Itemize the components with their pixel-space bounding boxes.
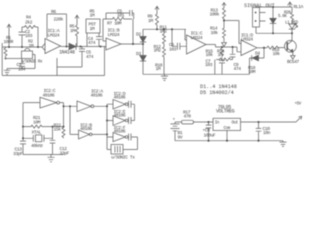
svg-text:103: 103 [25, 33, 33, 39]
svg-text:10k: 10k [211, 30, 219, 36]
svg-text:100uF: 100uF [204, 133, 216, 139]
svg-text:u/SONIC Rx: u/SONIC Rx [21, 60, 43, 65]
resistor R1 [4, 47, 7, 58]
svg-text:1M: 1M [218, 52, 223, 58]
svg-text:40106: 40106 [114, 95, 126, 101]
box PST [86, 19, 100, 33]
LED L1 [289, 23, 298, 41]
svg-text:SIGNAL OUT: SIGNAL OUT [244, 3, 275, 9]
svg-text:1M2: 1M2 [160, 28, 168, 34]
arrow +5V [299, 116, 302, 119]
svg-text:104: 104 [18, 67, 26, 73]
svg-text:10M: 10M [248, 69, 256, 75]
svg-text:1M: 1M [156, 66, 161, 72]
op-amp IC1:D [241, 40, 257, 56]
wire collector [256, 32, 292, 34]
svg-text:474: 474 [86, 54, 94, 60]
capacitor C5a 474 [79, 47, 85, 68]
transistor Q1 BC547 [285, 40, 297, 52]
diode D5 [270, 7, 276, 33]
wire C8 branch [172, 29, 177, 46]
svg-text:D2: D2 [136, 31, 141, 37]
wire input rail [2, 44, 45, 51]
regulator 78L05 [213, 118, 241, 140]
svg-text:LM324: LM324 [48, 32, 60, 38]
gate output bus [134, 104, 136, 120]
wire to IC1:D minus [224, 21, 241, 44]
inverter IC2:B [70, 106, 107, 139]
transducer X1 u/SONIC Rx [22, 48, 36, 68]
wire IC1:A out [61, 46, 70, 48]
svg-text:1M: 1M [29, 43, 34, 49]
svg-text:470: 470 [184, 113, 192, 119]
gate input bus [107, 104, 113, 149]
top rail +V [256, 6, 292, 8]
relay box RL1 [253, 8, 266, 34]
svg-text:L1 RED: L1 RED [285, 22, 299, 26]
wire to Tx [123, 137, 138, 150]
wire ref to minus [185, 29, 187, 40]
transducer u/SONIC Tx [107, 145, 123, 155]
svg-text:474: 474 [88, 40, 96, 46]
svg-text:LM324: LM324 [241, 36, 253, 42]
osc ground rail [23, 154, 64, 156]
svg-text:103: 103 [169, 47, 177, 53]
svg-text:33pF: 33pF [60, 151, 70, 157]
capacitor C9 [230, 47, 236, 60]
svg-text:1N4148: 1N4148 [59, 49, 75, 55]
capacitor C13 [20, 141, 26, 154]
inverter IC2:A [64, 101, 108, 112]
wire to Rx [6, 58, 22, 60]
crystal XTAL [23, 135, 53, 142]
resistor R20 [291, 7, 294, 24]
svg-text:2k2: 2k2 [25, 20, 33, 26]
svg-text:Com: Com [224, 127, 231, 131]
resistor R15 [221, 47, 224, 57]
svg-text:LM324: LM324 [191, 35, 203, 41]
supply arrow top right [288, 2, 293, 7]
capacitor C8 [177, 43, 186, 50]
ground input [4, 69, 35, 75]
svg-text:40106: 40106 [80, 126, 92, 132]
inverter IC2:D [113, 100, 135, 110]
junction dots bottom [63, 105, 65, 107]
svg-text:100R: 100R [4, 39, 14, 45]
wire IC1:B out [121, 43, 143, 45]
svg-text:D5 1N4002/4: D5 1N4002/4 [200, 90, 234, 96]
svg-text:Out: Out [232, 121, 239, 125]
ground right [280, 141, 287, 147]
ground rail mid [143, 73, 250, 75]
svg-text:1M: 1M [90, 26, 95, 32]
svg-text:5.6K: 5.6K [278, 15, 287, 19]
resistor R11 [163, 29, 166, 46]
svg-text:10k: 10k [206, 52, 214, 58]
capacitor C3 [19, 59, 25, 69]
supply ground rail [175, 140, 283, 142]
capacitor C2 [19, 27, 26, 47]
resistor R13 [222, 3, 226, 21]
op-amp IC1:C [187, 35, 207, 54]
resistor R14 [223, 21, 226, 42]
osc right column [63, 103, 65, 128]
osc left column [22, 103, 24, 141]
resistor R5 pullup [75, 15, 79, 46]
wire IC1:C out [206, 45, 237, 48]
resistor R12 [163, 46, 166, 74]
wire 5V out [241, 117, 301, 122]
feedback box R6 220k [47, 14, 67, 47]
inverter IC2:F [113, 133, 138, 142]
wire IC1:D out [257, 47, 267, 49]
capacitor C7 [219, 58, 225, 75]
svg-text:D4: D4 [255, 51, 260, 57]
svg-text:+5V: +5V [295, 103, 302, 107]
svg-text:D3: D3 [136, 51, 141, 57]
svg-text:XTAL: XTAL [32, 129, 42, 135]
svg-text:In: In [215, 121, 220, 125]
diode D3 [140, 56, 146, 75]
svg-text:40106: 40106 [114, 129, 126, 135]
wire batt to R17 [175, 121, 182, 123]
svg-text:40106: 40106 [91, 92, 103, 98]
svg-text:474: 474 [234, 66, 242, 72]
svg-text:10n: 10n [263, 130, 271, 136]
inverter IC2:C [23, 97, 64, 108]
svg-text:BC547: BC547 [287, 59, 299, 65]
svg-text:1M: 1M [90, 13, 95, 19]
svg-text:10M: 10M [33, 120, 41, 126]
svg-text:RL1A: RL1A [294, 4, 304, 10]
capacitor C4 [87, 33, 102, 47]
diode D4 loop [250, 48, 265, 75]
svg-text:1M2: 1M2 [154, 48, 162, 54]
svg-text:10k: 10k [273, 51, 281, 57]
svg-text:1M: 1M [148, 18, 153, 24]
svg-text:9V: 9V [178, 134, 183, 140]
resistor R16 [215, 58, 233, 74]
diode D1 1N4148 [69, 43, 106, 49]
resistor R2 leg [37, 27, 39, 47]
svg-text:u/SONIC Tx: u/SONIC Tx [111, 154, 135, 160]
wire to IC1:D plus [237, 47, 241, 52]
svg-text:15k: 15k [54, 127, 62, 133]
svg-text:40kHz: 40kHz [31, 143, 43, 149]
arrow down R14 [222, 43, 227, 47]
svg-text:VOLTREG: VOLTREG [216, 109, 235, 115]
inverter IC2:E [113, 116, 135, 126]
feedback C5 101 loop [106, 10, 134, 19]
op-amp IC1:A [45, 39, 61, 54]
svg-text:101: 101 [117, 13, 125, 19]
feedback R7 10M loop [103, 17, 133, 44]
svg-text:R6: R6 [51, 9, 56, 15]
ground bottom [48, 155, 55, 162]
svg-text:LM324: LM324 [108, 32, 120, 38]
supply arrow +V input [7, 24, 11, 47]
svg-text:220k: 220k [54, 16, 64, 22]
capacitor C11 100uF [206, 122, 212, 141]
battery B1 [171, 122, 180, 141]
svg-text:40106: 40106 [114, 112, 126, 118]
svg-text:103: 103 [205, 62, 213, 68]
wire bias rail [2, 43, 104, 76]
wire bias left [57, 58, 82, 76]
svg-text:100k: 100k [210, 12, 220, 18]
svg-text:33pF: 33pF [13, 151, 23, 157]
svg-text:1M: 1M [70, 28, 75, 34]
svg-text:R7 10M: R7 10M [107, 21, 122, 27]
diode D2 [140, 29, 146, 55]
resistor R19 [267, 46, 285, 49]
junction dots top [8, 46, 10, 48]
resistor R9 [155, 6, 159, 29]
resistor R4 [22, 26, 38, 29]
capacitor C12 [50, 127, 56, 155]
wire ref row [143, 28, 186, 30]
emitter ground arrow [291, 52, 296, 59]
resistor R22 [62, 127, 65, 138]
resistor R17 box [182, 120, 214, 124]
capacitor C10 [256, 122, 262, 141]
op-amp IC1:B [106, 38, 121, 50]
resistor R21 row [23, 125, 64, 128]
svg-text:40106: 40106 [43, 92, 55, 98]
ground mid [161, 74, 168, 80]
svg-text:D1..4 1N4148: D1..4 1N4148 [200, 84, 237, 90]
